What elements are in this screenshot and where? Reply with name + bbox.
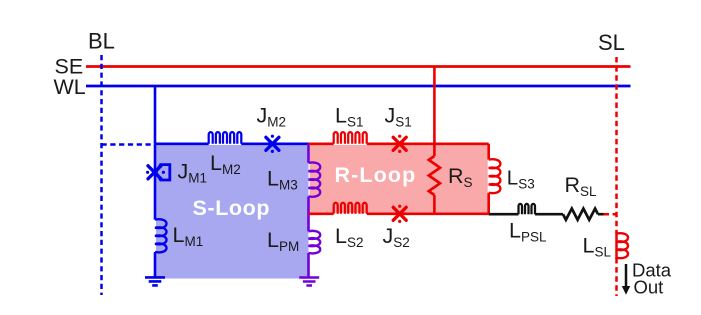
wire WL line: [86, 85, 631, 88]
wire SE branch down to R_S: [433, 67, 436, 157]
svg-text:BL: BL: [88, 28, 115, 53]
inductor L_S2: [334, 203, 367, 214]
label BL: [88, 28, 115, 53]
svg-text:JS2: JS2: [383, 224, 410, 250]
wire R-loop top edge: [309, 143, 489, 146]
wire BL dashed branch to S-loop: [102, 143, 156, 146]
svg-text:LS3: LS3: [507, 167, 535, 192]
label J_S1: [385, 103, 412, 129]
resistor R_SL: [563, 209, 598, 220]
inductor L_M1: [155, 219, 166, 252]
svg-text:LSL: LSL: [583, 234, 612, 260]
label L_M3: [267, 167, 298, 193]
josephson junction J_M2: [266, 135, 279, 153]
label SL: [598, 30, 625, 55]
label J_S2: [383, 224, 410, 250]
svg-text:S-Loop: S-Loop: [193, 196, 271, 220]
ground (S-loop left): [145, 277, 165, 285]
wire SL dashed sense line (lower): [615, 258, 618, 296]
svg-text:LS2: LS2: [335, 224, 363, 250]
wire BL dashed bit line: [100, 55, 103, 295]
label L_SL: [583, 234, 612, 260]
inductor L_M3: [309, 162, 321, 196]
wire S-loop left edge: [154, 144, 157, 278]
label R_SL: [565, 173, 598, 199]
label L_PM: [267, 228, 299, 254]
label L_M1: [173, 223, 204, 249]
wire R-loop bottom edge: [309, 213, 489, 216]
R-Loop fill region: [310, 145, 488, 213]
inductor L_M2: [209, 132, 242, 144]
svg-text:Out: Out: [634, 276, 664, 297]
label L_S2: [335, 224, 363, 250]
data out arrow: [622, 264, 630, 295]
inductor L_PSL: [519, 204, 536, 214]
svg-text:RSL: RSL: [565, 173, 598, 199]
josephson junction J_S1: [393, 135, 406, 153]
svg-text:JS1: JS1: [385, 103, 412, 129]
wire output line to L_PSL: [489, 213, 519, 216]
svg-text:LS1: LS1: [335, 103, 363, 129]
wire R_S to R-loop bottom edge: [433, 195, 436, 214]
wire shared purple branch (S/R loop common edge): [307, 144, 310, 278]
wire L_PSL to R_SL: [535, 213, 563, 216]
wire R-loop right edge: [487, 144, 490, 214]
svg-text:SL: SL: [598, 30, 625, 55]
inductor L_S3: [489, 159, 501, 193]
inductor L_SL: [617, 232, 628, 259]
josephson junction J_S2: [393, 205, 406, 223]
S-Loop fill region: [156, 145, 309, 279]
wire dashed link from R_SL to SL: [604, 213, 617, 216]
label R-Loop: [335, 163, 417, 187]
inductor L_S1: [334, 132, 367, 144]
svg-text:LPSL: LPSL: [509, 219, 547, 245]
label J_M1: [178, 160, 208, 186]
wire SE line: [86, 65, 631, 68]
label WL: [54, 75, 86, 99]
label S-Loop: [193, 196, 271, 220]
ground (shared purple branch): [299, 278, 319, 286]
wire R_SL to SL line: [598, 213, 604, 216]
label SE: [55, 54, 84, 78]
label Data Out: [632, 260, 672, 298]
label R_S: [448, 164, 473, 190]
label J_M2: [257, 103, 287, 129]
wire WL drop to S-loop top-left corner: [154, 86, 157, 144]
wire S-loop top edge: [155, 143, 309, 146]
label L_PSL: [509, 219, 547, 245]
label L_S3: [507, 167, 535, 192]
label L_M2: [210, 151, 241, 177]
label L_S1: [335, 103, 363, 129]
resistor R_S: [429, 156, 440, 195]
svg-text:WL: WL: [54, 75, 86, 99]
wire SL dashed sense line (upper): [615, 57, 618, 233]
svg-text:R-Loop: R-Loop: [335, 163, 417, 187]
inductor L_PM: [309, 231, 321, 254]
svg-text:JM2: JM2: [257, 103, 287, 129]
josephson junction J_M1 (magnetic, with barrier symbol): [146, 165, 170, 180]
